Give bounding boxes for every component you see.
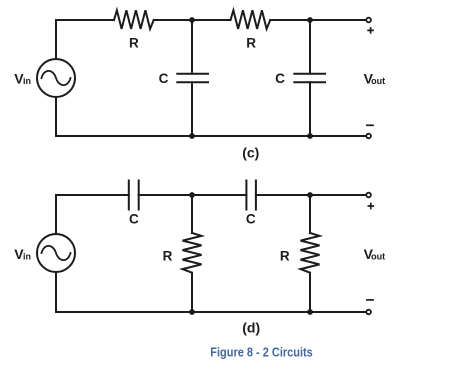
wire: R2 to node B	[270, 19, 310, 21]
sine symbol inside source 2	[42, 246, 71, 260]
node C junction dot	[189, 192, 195, 198]
sine symbol inside source	[42, 71, 71, 85]
resistor R1	[114, 10, 154, 29]
svg-text:Vin: Vin	[14, 246, 31, 262]
output terminal - (d)	[366, 310, 371, 315]
wire: source 2 bottom down	[55, 272, 57, 312]
svg-text:Vout: Vout	[364, 71, 386, 87]
svg-text:R: R	[129, 36, 139, 51]
resistor R4 top lead wire	[309, 195, 311, 233]
svg-text:R: R	[163, 249, 173, 264]
svg-text:Figure 8 - 2 Circuits: Figure 8 - 2 Circuits	[210, 345, 313, 359]
wire: source 2 top to top-left corner	[55, 195, 57, 234]
svg-text:R: R	[280, 249, 290, 264]
wire: node A to resistor R2	[192, 19, 231, 21]
wire: C4 to + terminal	[256, 194, 366, 196]
capacitor C3 plates (series)	[129, 181, 139, 210]
plus sign (d)	[368, 204, 373, 209]
resistor R3	[183, 233, 202, 273]
node B junction dot	[307, 17, 313, 23]
svg-text:(c): (c)	[242, 145, 259, 161]
minus sign (d)	[367, 299, 373, 301]
minus sign (c)	[367, 124, 373, 126]
wire: top-left corner to resistor R1	[56, 19, 114, 21]
node A' bottom junction dot	[189, 133, 195, 139]
svg-text:R: R	[246, 36, 256, 51]
wire: source top to top-left corner	[55, 20, 57, 59]
capacitor C2 plates	[294, 74, 325, 83]
wire: node B to + terminal	[310, 19, 366, 21]
source V2 (Vin, AC)	[37, 234, 75, 272]
wire: source bottom down	[55, 97, 57, 136]
node A junction dot	[189, 17, 195, 23]
svg-text:C: C	[275, 71, 285, 86]
resistor R4	[301, 233, 320, 273]
plus sign (c)	[368, 28, 373, 33]
bottom wire of circuit (c)	[56, 135, 366, 137]
capacitor C4 plates (series)	[246, 181, 256, 210]
svg-text:Vin: Vin	[14, 71, 31, 87]
bottom wire of circuit (d)	[56, 311, 366, 313]
capacitor C1 bottom lead wire	[191, 82, 193, 136]
capacitor C1 plates	[177, 74, 208, 83]
svg-text:C: C	[129, 212, 139, 227]
capacitor C1 top lead wire	[191, 20, 193, 74]
capacitor C2 top lead wire	[309, 20, 311, 74]
resistor R4 bottom lead wire	[309, 273, 311, 312]
svg-text:Vout: Vout	[364, 246, 386, 262]
node C' bottom junction dot	[189, 309, 195, 315]
output terminal + (d)	[366, 193, 371, 198]
node B' bottom junction dot	[307, 133, 313, 139]
wire: C3 to node C	[139, 194, 247, 196]
wire: corner to capacitor C3	[56, 194, 129, 196]
output terminal - (c)	[366, 134, 371, 139]
source V1 (Vin, AC)	[37, 59, 75, 97]
resistor R2	[231, 10, 271, 29]
node D junction dot	[307, 192, 313, 198]
node D' bottom junction dot	[307, 309, 313, 315]
resistor R3 top lead wire	[191, 195, 193, 233]
wire: R1 to node A	[154, 19, 192, 21]
svg-text:(d): (d)	[242, 320, 260, 336]
svg-text:C: C	[159, 71, 169, 86]
output terminal + (c)	[366, 18, 371, 23]
resistor R3 bottom lead wire	[191, 273, 193, 312]
svg-text:C: C	[246, 211, 256, 226]
capacitor C2 bottom lead wire	[309, 82, 311, 136]
